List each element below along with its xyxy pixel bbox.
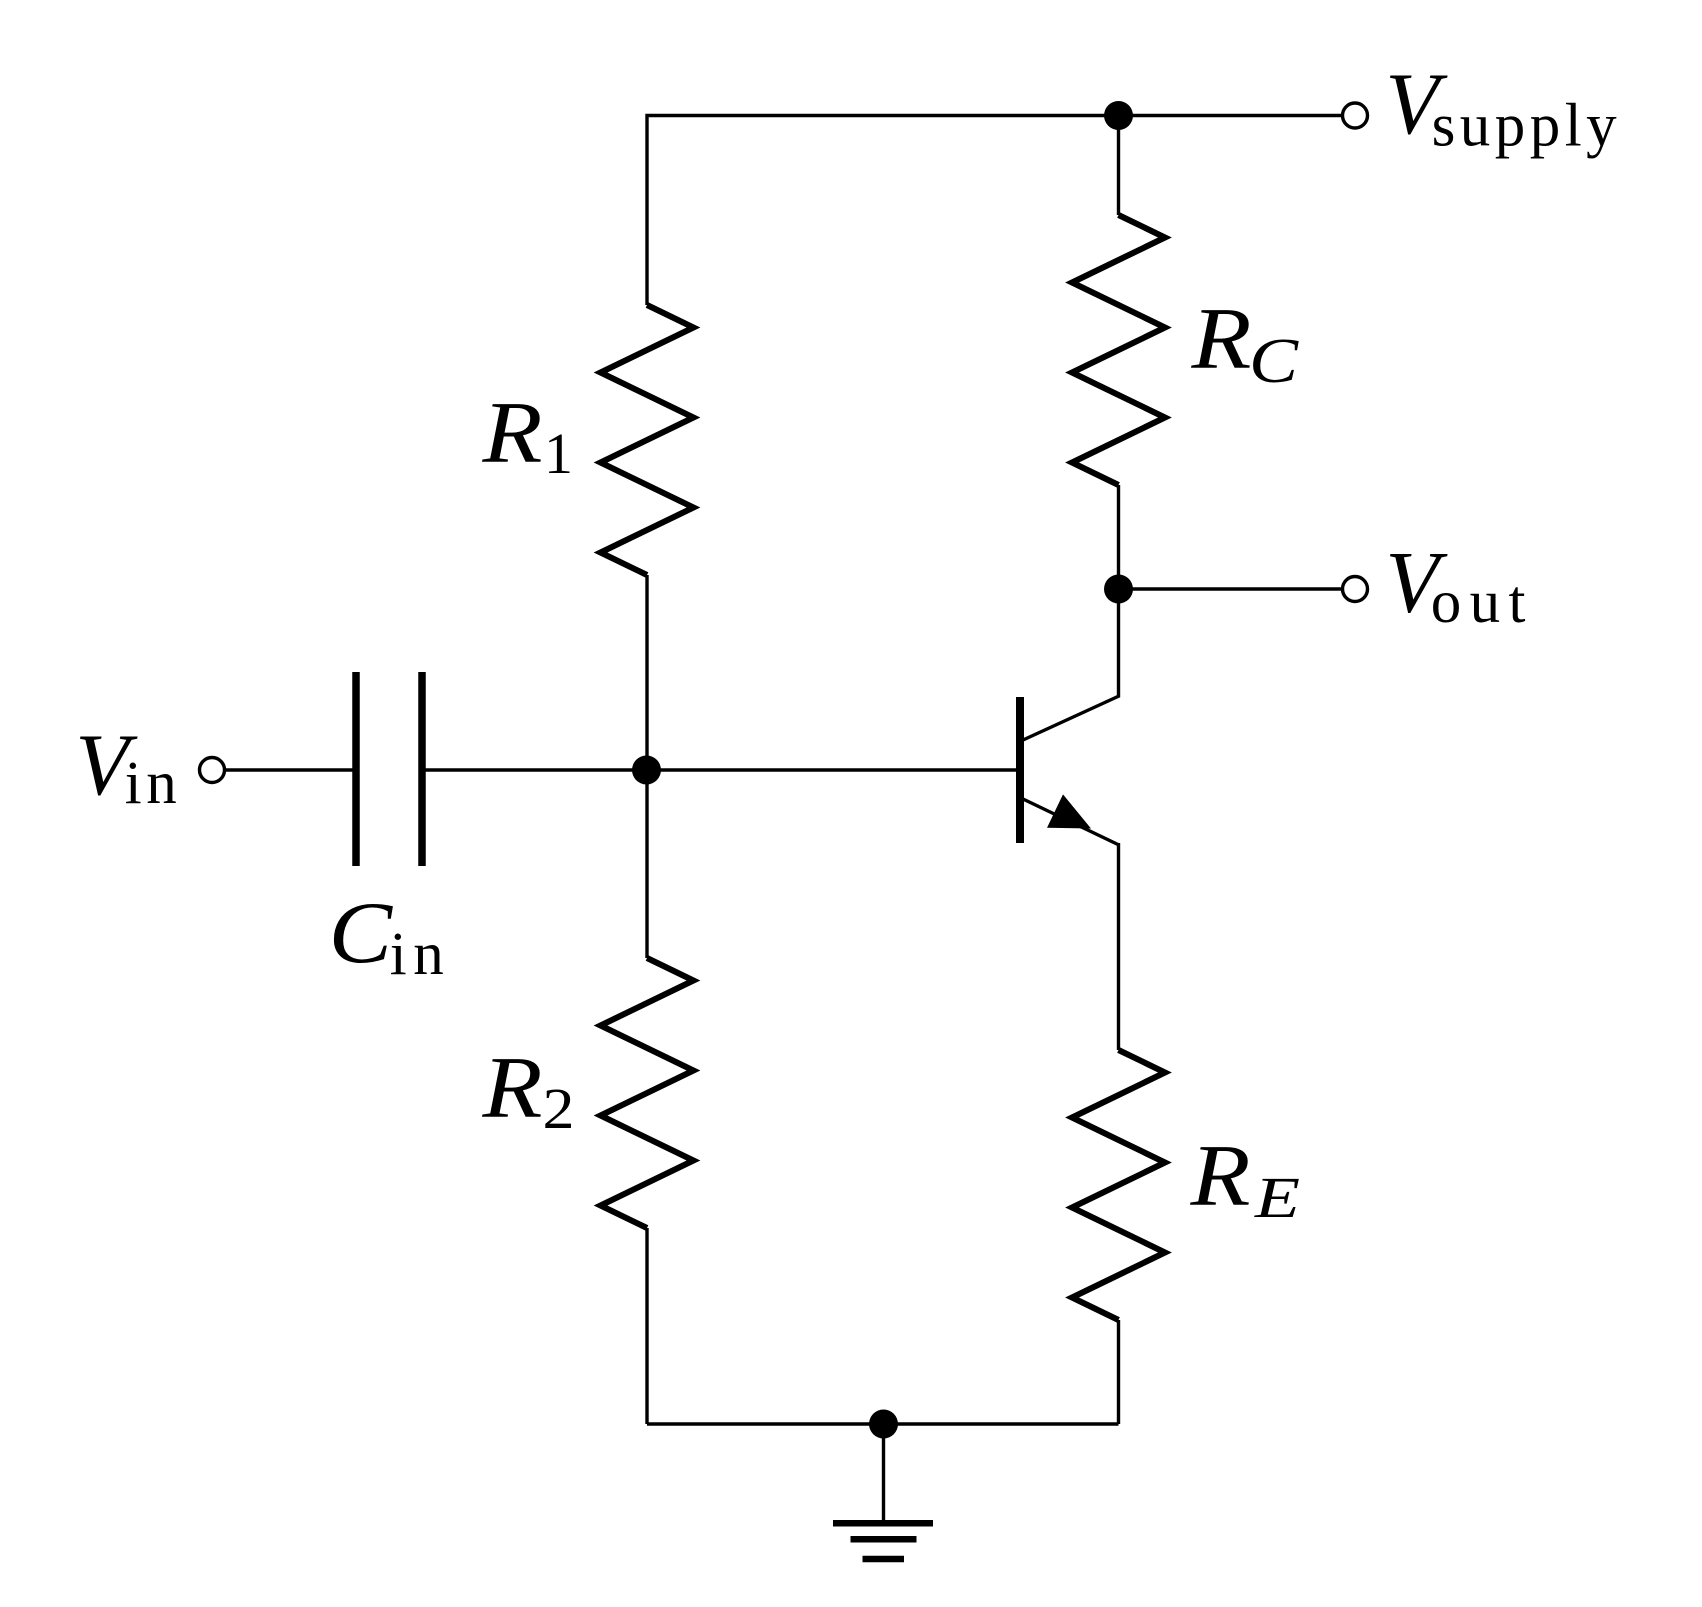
- transistor Q1 emitter arrow: [1047, 794, 1091, 828]
- wire RE bottom to bottom rail: [1117, 1320, 1120, 1424]
- transistor Q1 collector lead: [1023, 696, 1119, 740]
- svg-text:R: R: [481, 1040, 542, 1137]
- capacitor Cin left plate: [352, 672, 360, 866]
- svg-text:2: 2: [543, 1076, 575, 1141]
- svg-text:E: E: [1254, 1165, 1300, 1230]
- svg-text:C: C: [1249, 325, 1300, 396]
- svg-text:supply: supply: [1432, 93, 1618, 160]
- wire base node to R2 top: [645, 770, 648, 958]
- node supply junction: [1104, 101, 1133, 130]
- wire emitter vertical to RE top: [1117, 843, 1120, 1050]
- terminal Vsupply: [1343, 103, 1368, 128]
- svg-text:R: R: [1190, 291, 1251, 388]
- terminal Vout: [1343, 577, 1368, 602]
- wire R1 bottom lead to base node: [645, 575, 648, 770]
- label Vout: [1385, 535, 1525, 637]
- svg-text:in: in: [125, 750, 177, 817]
- svg-text:in: in: [390, 921, 444, 988]
- svg-text:R: R: [481, 385, 542, 482]
- transistor Q1 emitter lead: [1023, 799, 1119, 845]
- svg-text:out: out: [1431, 569, 1526, 636]
- wire capacitor right plate to transistor base: [426, 768, 1017, 771]
- wire collector vertical: [1117, 589, 1120, 698]
- label RC: [1190, 291, 1299, 396]
- wire RC bottom to Vout node: [1117, 485, 1120, 589]
- resistor RC: [1072, 215, 1165, 485]
- label Cin: [329, 885, 444, 988]
- svg-text:1: 1: [544, 421, 573, 486]
- wire Vsupply node down to RC top: [1117, 116, 1120, 216]
- transistor Q1 base bar: [1016, 697, 1024, 843]
- wire Vout node to Vout terminal: [1119, 587, 1343, 590]
- label Vsupply: [1385, 56, 1617, 160]
- resistor R1: [601, 305, 694, 575]
- label Vin: [75, 717, 176, 817]
- wire ground stem: [882, 1424, 885, 1522]
- svg-text:C: C: [329, 885, 394, 982]
- capacitor Cin right plate: [418, 672, 426, 866]
- label RE: [1189, 1128, 1300, 1230]
- wire Vin terminal to capacitor left plate: [225, 768, 353, 771]
- resistor R2: [601, 958, 694, 1228]
- label R2: [481, 1040, 574, 1141]
- node base junction: [632, 756, 661, 785]
- node Vout junction: [1104, 575, 1133, 604]
- wire bottom rail: [647, 1422, 1119, 1425]
- resistor RE: [1072, 1050, 1165, 1320]
- node ground junction: [869, 1410, 898, 1439]
- ground: [833, 1523, 933, 1559]
- wire top rail from R1 top to supply node and terminal: [647, 116, 1342, 306]
- svg-text:R: R: [1189, 1128, 1250, 1225]
- terminal Vin: [200, 758, 225, 783]
- wire R2 bottom lead to bottom rail: [645, 1228, 648, 1424]
- label R1: [481, 385, 573, 486]
